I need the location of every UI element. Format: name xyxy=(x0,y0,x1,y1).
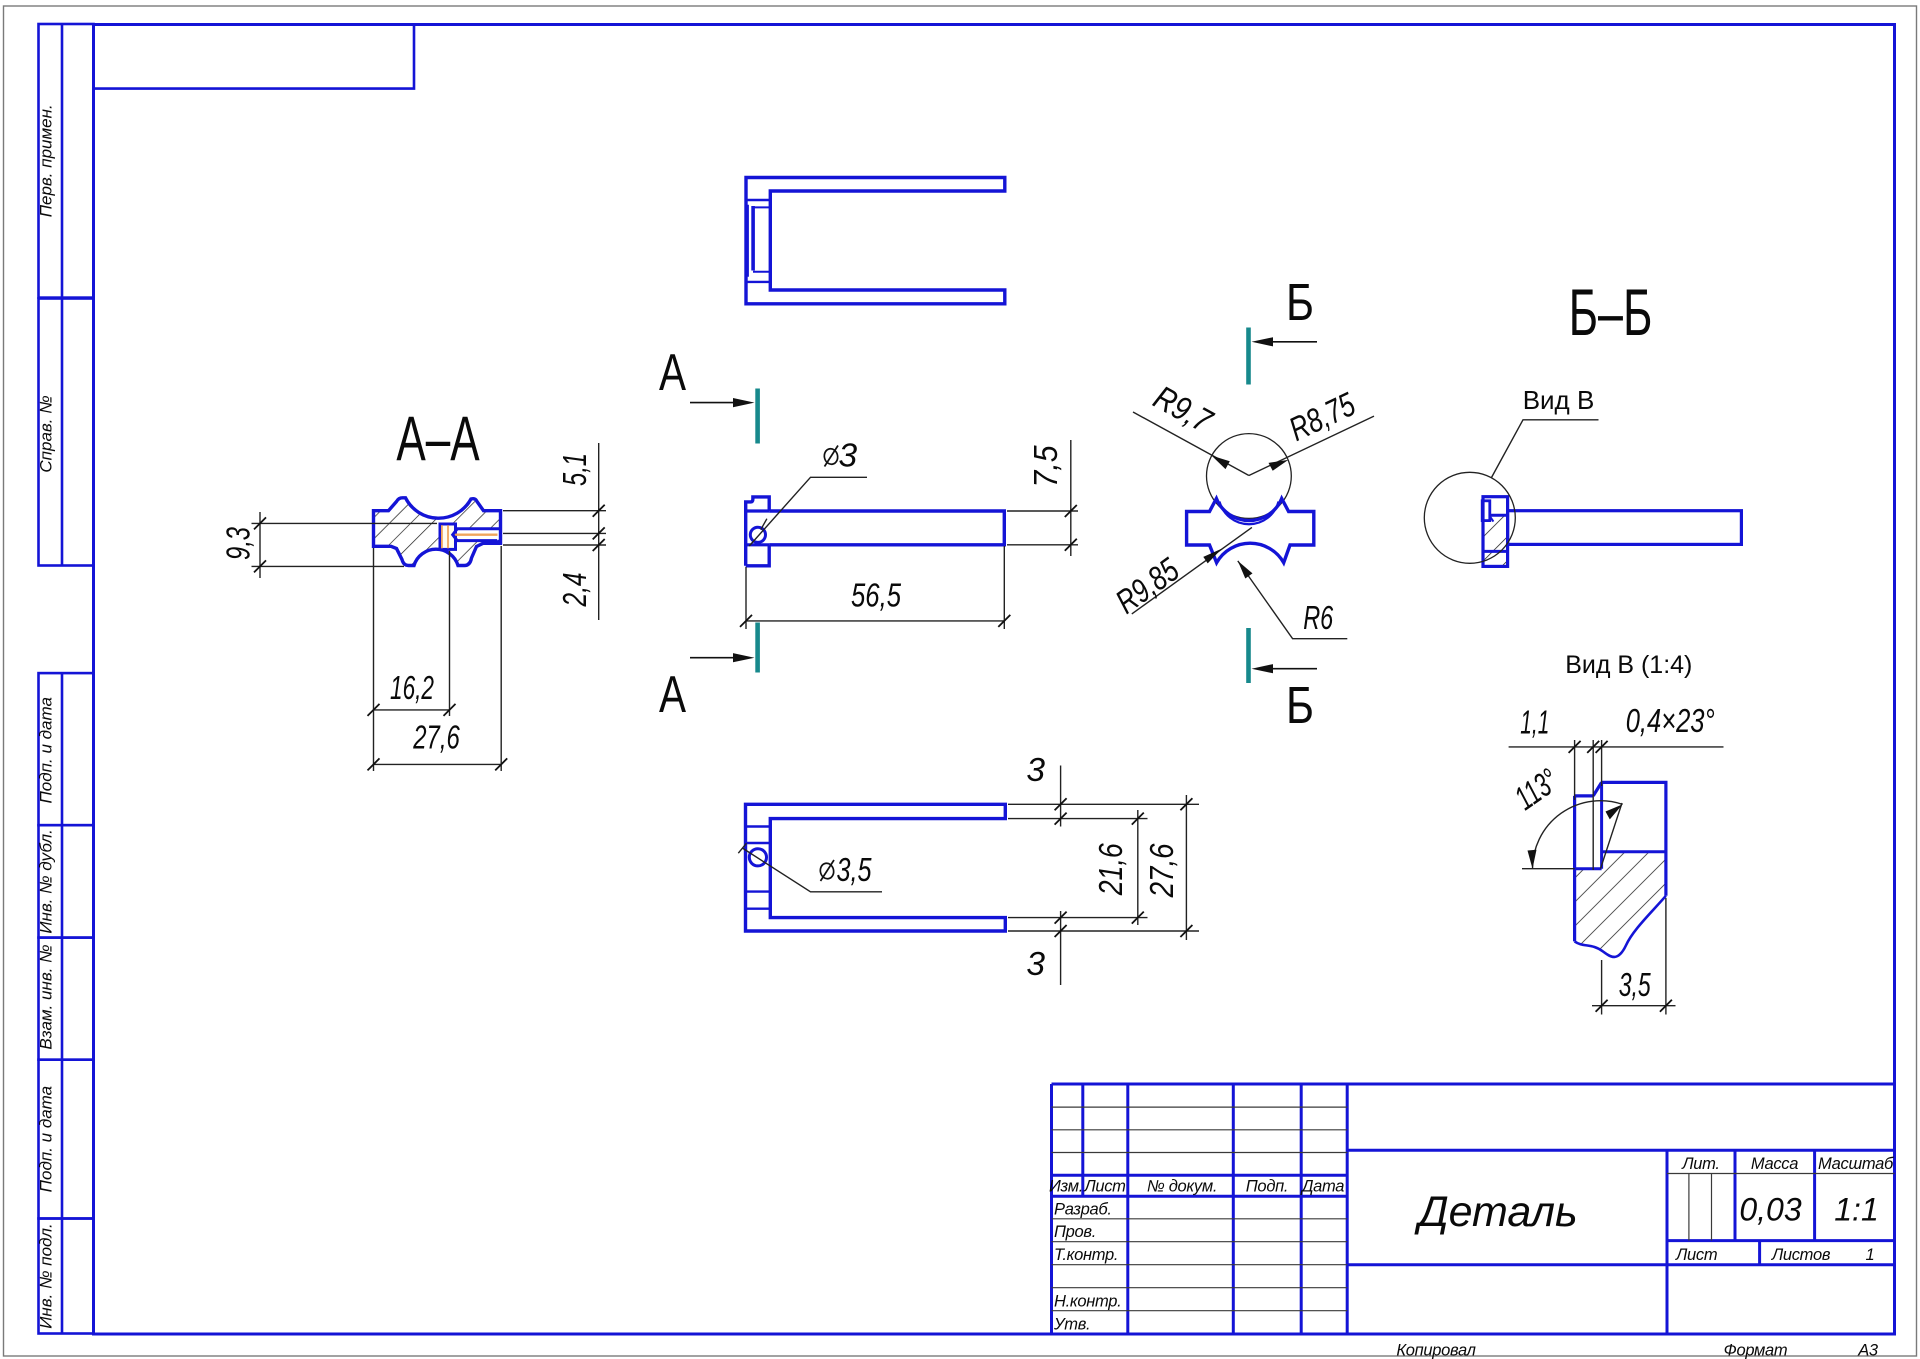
bottom dims extension lines xyxy=(1008,803,1199,805)
pin shaft outline in section xyxy=(453,529,501,544)
svg-text:21,6: 21,6 xyxy=(1093,843,1130,896)
top-left document cell xyxy=(94,25,415,89)
left strip box Перв. примен. xyxy=(39,24,94,298)
section arrow A bottom xyxy=(659,623,758,724)
svg-text:Лит.: Лит. xyxy=(1681,1155,1719,1173)
angle 113 horizontal ray xyxy=(1522,868,1575,870)
tick marks front view xyxy=(1065,505,1077,517)
B-B head chamfer xyxy=(1490,516,1494,522)
dim 3 bottom line xyxy=(1060,911,1062,985)
svg-text:1:1: 1:1 xyxy=(1834,1192,1878,1228)
title block thin row lines xyxy=(1052,1106,1348,1108)
leader R9,85 xyxy=(1132,527,1252,614)
angle arrow right xyxy=(1606,804,1623,819)
bottom view fork outline xyxy=(746,804,1006,931)
svg-text:Лист: Лист xyxy=(1675,1246,1717,1264)
section A-A hatch xyxy=(374,498,501,566)
dim 27,6 line xyxy=(374,763,502,765)
B-B hatch xyxy=(1483,515,1508,566)
bottom view web lines xyxy=(746,825,771,827)
svg-text:3,5: 3,5 xyxy=(837,852,872,889)
dim 27,6 extension left xyxy=(373,548,375,771)
B-B head line lower xyxy=(1483,550,1508,553)
hole leader line xyxy=(749,477,867,546)
svg-text:Перв. примен.: Перв. примен. xyxy=(37,104,56,217)
svg-text:Инв. № дубл.: Инв. № дубл. xyxy=(37,829,56,934)
arrow R9,7 xyxy=(1212,456,1230,470)
svg-text:Дата: Дата xyxy=(1300,1178,1344,1196)
svg-text:Б: Б xyxy=(1286,274,1314,332)
svg-text:9,3: 9,3 xyxy=(221,527,258,560)
leader R6 xyxy=(1238,561,1348,639)
highlighted pin edges (orange) xyxy=(442,525,498,548)
svg-text:Изм.: Изм. xyxy=(1049,1178,1083,1196)
top view web line upper xyxy=(746,199,770,201)
left strip box Справ. № xyxy=(39,299,94,566)
svg-text:56,5: 56,5 xyxy=(851,578,901,615)
arrow R8,75 xyxy=(1269,460,1289,471)
svg-text:R6: R6 xyxy=(1303,600,1333,637)
dim 16,2 extension line xyxy=(449,551,451,716)
left strip box Инв. № подл. xyxy=(39,1219,94,1334)
svg-text:3: 3 xyxy=(839,438,858,475)
B-B head outline xyxy=(1483,497,1508,567)
detail inner vertical xyxy=(1600,782,1603,868)
spool silhouette (Б location) xyxy=(1187,499,1314,563)
svg-text:Подп. и дата: Подп. и дата xyxy=(37,1086,56,1192)
bottom view hole xyxy=(749,849,766,866)
detail break line (wavy) xyxy=(1575,896,1666,957)
dim 9,3 extension lines xyxy=(252,522,438,524)
leader R8,75 xyxy=(1249,416,1374,475)
svg-text:Инв. № подл.: Инв. № подл. xyxy=(37,1223,56,1329)
dim 21,6 line xyxy=(1137,810,1139,925)
front view hole xyxy=(750,527,765,542)
section arrow A top xyxy=(659,343,758,443)
svg-text:0,4×23°: 0,4×23° xyxy=(1626,703,1715,740)
svg-text:3: 3 xyxy=(1026,946,1045,983)
svg-text:1: 1 xyxy=(1866,1246,1875,1264)
dim 7,5 line xyxy=(1070,440,1072,556)
detail view circle B xyxy=(1424,472,1515,563)
svg-text:Взам. инв. №: Взам. инв. № xyxy=(37,944,56,1049)
svg-text:Справ. №: Справ. № xyxy=(37,395,56,472)
svg-text:27,6: 27,6 xyxy=(1144,843,1181,898)
angle arrow left xyxy=(1528,850,1537,869)
top view fork outline xyxy=(746,178,1005,304)
left strip box Подп. и дата (lower) xyxy=(39,1060,94,1219)
svg-text:Б: Б xyxy=(1286,677,1314,735)
front view head outline xyxy=(746,497,770,566)
svg-text:27,6: 27,6 xyxy=(413,720,460,757)
section arrow Б bottom xyxy=(1249,628,1318,735)
svg-text:Пров.: Пров. xyxy=(1054,1223,1096,1241)
leader tick xyxy=(761,519,767,530)
dim 3,5 line xyxy=(1592,1005,1676,1007)
pin slot in section xyxy=(440,524,456,549)
B-B bar xyxy=(1508,511,1742,545)
svg-text:Масса: Масса xyxy=(1751,1155,1798,1173)
angle 113 arc xyxy=(1533,801,1623,869)
svg-text:Листов: Листов xyxy=(1771,1246,1831,1264)
dim 5,1 2,4 extension lines xyxy=(503,510,606,512)
tick marks bottom view xyxy=(1055,798,1067,810)
svg-text:А3: А3 xyxy=(1857,1342,1879,1359)
groove radius construction circle xyxy=(1207,434,1292,519)
arrow R9,85 xyxy=(1203,549,1222,564)
leader R9,7 xyxy=(1133,412,1249,476)
dim 7,5 extension lines xyxy=(1007,510,1078,512)
detail bar top line xyxy=(1602,850,1666,853)
svg-text:0,03: 0,03 xyxy=(1739,1192,1801,1228)
dim 3 top line xyxy=(1060,766,1062,827)
dim 16,2 line xyxy=(374,709,450,711)
svg-text:7,5: 7,5 xyxy=(1028,445,1065,487)
dim 27,6 extension right xyxy=(500,546,502,771)
section arrow Б top xyxy=(1249,274,1318,384)
svg-text:Масштаб: Масштаб xyxy=(1818,1155,1894,1173)
dim 56,5 extension lines xyxy=(745,567,747,629)
svg-text:А: А xyxy=(659,343,686,401)
svg-text:Вид В: Вид В xyxy=(1523,385,1595,415)
dim 9,3 line xyxy=(259,512,261,578)
svg-text:Лист: Лист xyxy=(1083,1178,1125,1196)
svg-text:Разраб.: Разраб. xyxy=(1054,1201,1112,1219)
svg-text:Формат: Формат xyxy=(1724,1342,1788,1359)
top view pin body xyxy=(751,206,755,271)
section A-A spool outline xyxy=(374,498,501,566)
svg-text:Копировал: Копировал xyxy=(1396,1342,1475,1359)
svg-text:5,1: 5,1 xyxy=(557,453,594,486)
svg-text:3: 3 xyxy=(1026,752,1045,789)
front view bar xyxy=(769,511,1004,545)
svg-text:Подп.: Подп. xyxy=(1246,1178,1288,1196)
detail outline xyxy=(1575,782,1666,941)
dim text diameter 3 xyxy=(823,446,839,467)
left strip box Инв. № дубл. xyxy=(39,825,94,937)
groove inner arc (double line) xyxy=(1220,502,1279,525)
svg-text:№ докум.: № докум. xyxy=(1147,1178,1217,1196)
arrow R6 xyxy=(1238,561,1253,579)
detail tab bottom line xyxy=(1575,867,1602,870)
angle 113 diagonal ray xyxy=(1601,803,1623,869)
svg-text:Б–Б: Б–Б xyxy=(1569,275,1653,349)
B-B head tab xyxy=(1482,501,1490,521)
B-B head line upper xyxy=(1490,514,1508,517)
front view head split lines xyxy=(746,509,770,512)
svg-text:Вид В (1:4): Вид В (1:4) xyxy=(1565,651,1692,679)
svg-text:3,5: 3,5 xyxy=(1619,967,1651,1004)
view B leader xyxy=(1492,420,1599,478)
svg-text:Н.контр.: Н.контр. xyxy=(1054,1293,1121,1311)
detail tick marks xyxy=(1569,741,1581,753)
detail extension lines xyxy=(1574,740,1576,800)
svg-text:А–А: А–А xyxy=(396,403,480,474)
left strip box Подп. и дата (upper) xyxy=(39,673,94,825)
detail top dim line xyxy=(1509,746,1724,748)
dim 56,5 line xyxy=(746,620,1004,622)
detail hatch region xyxy=(1575,852,1666,957)
hole 3,5 leader xyxy=(742,848,882,892)
title block xyxy=(1052,1084,1895,1334)
top view web line lower xyxy=(746,281,770,283)
tick marks A-A xyxy=(254,517,266,529)
svg-text:А: А xyxy=(659,665,686,723)
title block outer and thick lines xyxy=(1052,1083,1895,1086)
top view pin bottom edge xyxy=(753,271,770,273)
svg-text:Т.контр.: Т.контр. xyxy=(1054,1246,1118,1264)
left strip box Взам. инв. № xyxy=(39,938,94,1060)
svg-text:2,4: 2,4 xyxy=(557,573,594,608)
dim 5,1 2,4 line xyxy=(598,443,600,620)
svg-text:1,1: 1,1 xyxy=(1520,705,1549,742)
top view pin slot left edge xyxy=(747,205,749,277)
svg-text:Деталь: Деталь xyxy=(1414,1188,1577,1236)
dim text diameter 3,5 xyxy=(819,860,835,881)
svg-text:Утв.: Утв. xyxy=(1053,1316,1090,1334)
dim 27,6 line xyxy=(1185,795,1187,940)
dim 3,5 extension lines xyxy=(1601,960,1603,1015)
leader tick xyxy=(738,843,746,853)
svg-text:Подп. и дата: Подп. и дата xyxy=(37,697,56,803)
top view pin top edge xyxy=(753,206,770,208)
svg-text:16,2: 16,2 xyxy=(390,670,434,707)
